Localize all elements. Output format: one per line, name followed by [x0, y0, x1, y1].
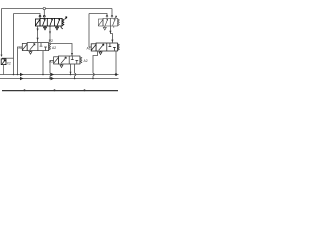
- arrows inside V2: [105, 19, 108, 26]
- wire pilot V5 to bus line 2: [50, 60, 54, 78]
- wire V6 output to net B: [2, 57, 14, 59]
- wire V3 supply to bus line 1: [42, 51, 44, 75]
- wire W1 from V1 bottom to valve V5 top: [50, 27, 73, 56]
- pilot of V5: [54, 57, 59, 64]
- wire pilot V3 to bus line 1: [18, 47, 23, 75]
- body of V5: [59, 56, 80, 64]
- wire net B left vertical: [13, 14, 15, 75]
- tick dot on supply line x24.5: [24, 89, 26, 91]
- node junction circle on net A: [43, 7, 45, 9]
- arrow inside V3 chamber 1: [30, 44, 35, 50]
- arrow inside V5 chamber 1: [61, 57, 66, 63]
- spring of V1: [62, 19, 64, 26]
- junction dot bus1 x17.5: [17, 74, 19, 76]
- wire net B right vertical to pilot of V4: [89, 14, 91, 48]
- wire W3 from V2 bottom to valve V4 top: [110, 26, 113, 43]
- junction dot bus2 x50: [49, 78, 51, 80]
- wire V4 right port to bus line 1: [115, 51, 117, 75]
- junction dot bus1 x116: [115, 73, 118, 76]
- tick dot on supply line x54.5: [54, 89, 56, 91]
- svg-text:X2: X2: [7, 62, 11, 66]
- exhaust triangle under V1 left: [44, 27, 47, 30]
- pilot of V2: [98, 19, 103, 26]
- svg-text:A2: A2: [84, 59, 88, 63]
- body of V6: [1, 59, 6, 65]
- blocked ports inside V3 chamber 2: [40, 43, 47, 50]
- blocked ports inside V4 chamber 2: [109, 43, 116, 50]
- bus line 1: [0, 74, 119, 76]
- pilot of V4: [91, 44, 96, 51]
- spring of V2: [118, 19, 120, 26]
- pin port circle 12 of V1: [43, 15, 45, 17]
- body of V4: [96, 43, 117, 51]
- pin port circle 12 of V2: [106, 15, 108, 17]
- svg-text:A1: A1: [87, 47, 91, 51]
- wire net A top line: [2, 8, 113, 10]
- exhaust triangle under V5: [60, 65, 63, 68]
- pin port circle 10 of V2: [111, 15, 113, 17]
- body of V2: [103, 18, 118, 26]
- port stub under V2: [105, 26, 114, 28]
- wire V4 output to bus line 2: [93, 51, 98, 79]
- pin port circle 14 of V1: [39, 15, 41, 17]
- arrow on wire W3: [109, 31, 111, 34]
- valve V3 3/2 mid-left: [19, 43, 57, 55]
- arrow on bus line 2 at x 21.5: [20, 77, 23, 81]
- arrow on bus line 2 at x 51.5: [51, 77, 54, 81]
- arrow on wire W2: [37, 29, 39, 32]
- svg-text:P2: P2: [49, 39, 53, 43]
- pilot of V1: [35, 19, 40, 26]
- exhaust triangle under V2: [103, 27, 106, 30]
- exhaust triangle under V3: [29, 52, 32, 55]
- blocked ports inside V5 chamber 2: [71, 56, 78, 63]
- wire V5 supply to bus line 1: [70, 64, 72, 75]
- exhaust triangle under V1 right: [56, 27, 59, 30]
- arrow on net A left drop: [1, 55, 3, 57]
- junction dot bus1 x14: [13, 74, 15, 76]
- small valve V6 bottom-left: [1, 58, 13, 74]
- tick dot on supply line x84.5: [84, 89, 86, 91]
- spring of V4: [118, 44, 120, 51]
- pilot of V3: [22, 43, 27, 50]
- arrow on bus line 1 at x 21.5: [20, 73, 23, 77]
- wire net A left drop: [1, 9, 3, 56]
- exhaust arrow of V2: [115, 16, 117, 19]
- arrow on wire W1: [49, 32, 51, 35]
- valve V5 3/2 center: [49, 56, 88, 68]
- wire V5 exhaust to bus line 2: [75, 64, 76, 79]
- wire net B left segment: [14, 14, 41, 16]
- spring of V5: [80, 57, 82, 64]
- body of V3: [27, 43, 48, 51]
- arrow on bus line 1 at x 51.5: [51, 73, 54, 77]
- bottom supply line: [2, 90, 118, 92]
- body of V1: [40, 18, 62, 26]
- exhaust arrow of V1: [65, 17, 67, 20]
- valve V1 5/2 top-left: [35, 15, 67, 29]
- junction dot bus2 x93: [92, 78, 94, 80]
- wire W2 from V1 pilot down to valve V3: [37, 26, 39, 42]
- valve V4 3/2 mid-right: [87, 43, 120, 55]
- svg-text:A2: A2: [52, 46, 56, 50]
- arrows inside V1: [43, 19, 46, 26]
- spring of V3: [49, 43, 51, 50]
- port stubs under V1: [45, 26, 63, 29]
- bus line 2: [0, 78, 119, 80]
- arrow inside V4 chamber 1: [99, 44, 104, 50]
- valve V2 3/2 top-right: [98, 15, 119, 30]
- wire net A tap to valve V1: [43, 10, 45, 16]
- junction dot bus1 x70.5: [70, 74, 72, 76]
- junction dot bus1 x43: [42, 74, 44, 76]
- wire net B right segment: [89, 14, 107, 16]
- exhaust triangle under V4: [99, 52, 102, 55]
- wire net A right drop to valve V2: [111, 9, 113, 16]
- junction dot bus2 x74.6: [74, 78, 76, 80]
